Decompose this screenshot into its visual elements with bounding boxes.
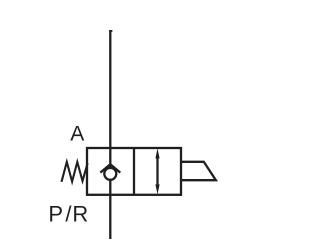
flow arrow (double-headed, right cell) [156,155,158,188]
svg-text:A: A [70,123,84,146]
wire (vertical A to P/R line) [109,30,111,239]
check valve seat (chevron) [100,164,120,172]
valve body box (2 positions) [87,148,181,195]
svg-text:R: R [72,201,88,226]
pedal actuator (trapezoid) [181,162,216,180]
svg-text:P: P [48,201,63,226]
check valve ball (circle) [104,168,116,180]
position divider [133,148,135,195]
svg-text:/: / [65,201,72,226]
wire top cap [109,30,112,32]
spring [62,162,88,182]
